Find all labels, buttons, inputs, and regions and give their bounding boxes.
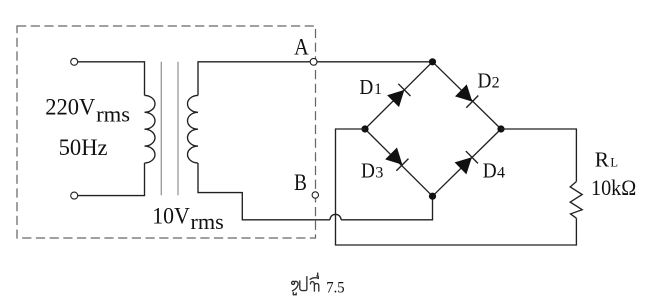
junction dot top node	[429, 58, 436, 65]
wire hop over vertical wire	[330, 214, 341, 219]
diode D3	[385, 147, 402, 164]
transformer T1 secondary winding	[188, 95, 199, 163]
caption: Thai glyph po pla	[300, 277, 307, 291]
svg-text:1: 1	[374, 81, 382, 98]
caption: Thai vowel sara ii above	[310, 276, 318, 279]
caption: Thai glyph ro rua	[292, 273, 319, 295]
enclosure dashed box	[17, 26, 316, 238]
svg-text:A: A	[294, 34, 309, 59]
svg-text:D: D	[359, 75, 373, 99]
junction dot bottom node	[429, 193, 436, 200]
node A terminal	[310, 58, 317, 65]
diode D2	[455, 84, 472, 101]
wire primary bottom	[77, 163, 144, 196]
junction dot left node	[361, 125, 368, 132]
transformer T1 primary winding	[145, 95, 156, 163]
bridge edge bottom-right	[433, 129, 502, 196]
input terminal bottom	[71, 192, 78, 199]
svg-text:3: 3	[375, 164, 383, 181]
transformer core	[161, 62, 178, 196]
caption: Thai glyph tho thahan	[310, 282, 318, 292]
svg-text:D: D	[483, 158, 497, 182]
svg-text:7.5: 7.5	[326, 279, 344, 296]
wire primary top	[77, 62, 144, 96]
wire secondary bottom	[198, 163, 330, 220]
wire hop to bridge bottom node	[341, 196, 433, 220]
svg-text:50Hz: 50Hz	[59, 135, 108, 161]
svg-text:rms: rms	[96, 102, 130, 127]
diode D1	[387, 90, 404, 107]
resistor RL zigzag	[570, 182, 582, 219]
svg-text:2: 2	[492, 74, 500, 91]
svg-text:rms: rms	[191, 209, 224, 234]
wire secondary top to bridge top node	[198, 62, 433, 96]
svg-text:L: L	[610, 156, 618, 170]
junction dot right node	[497, 125, 504, 132]
diode D4	[455, 157, 472, 174]
svg-text:D: D	[478, 68, 492, 92]
bridge edge top-right	[433, 62, 502, 129]
caption: Thai tone mark mai ek	[317, 273, 319, 276]
input terminal top	[71, 58, 78, 65]
svg-text:D: D	[361, 158, 375, 182]
svg-text:B: B	[294, 170, 307, 195]
svg-text:4: 4	[497, 164, 505, 181]
caption: Thai vowel sara uu below	[293, 293, 296, 295]
wire right node to resistor	[501, 129, 576, 182]
bridge edge left-top	[365, 62, 433, 129]
bridge edge left-bottom	[365, 129, 433, 196]
svg-text:R: R	[595, 148, 609, 172]
svg-text:10V: 10V	[152, 204, 190, 229]
svg-text:220V: 220V	[45, 95, 95, 120]
svg-text:10kΩ: 10kΩ	[591, 175, 636, 200]
wire resistor bottom to left node	[336, 129, 577, 245]
node B terminal	[312, 192, 318, 198]
